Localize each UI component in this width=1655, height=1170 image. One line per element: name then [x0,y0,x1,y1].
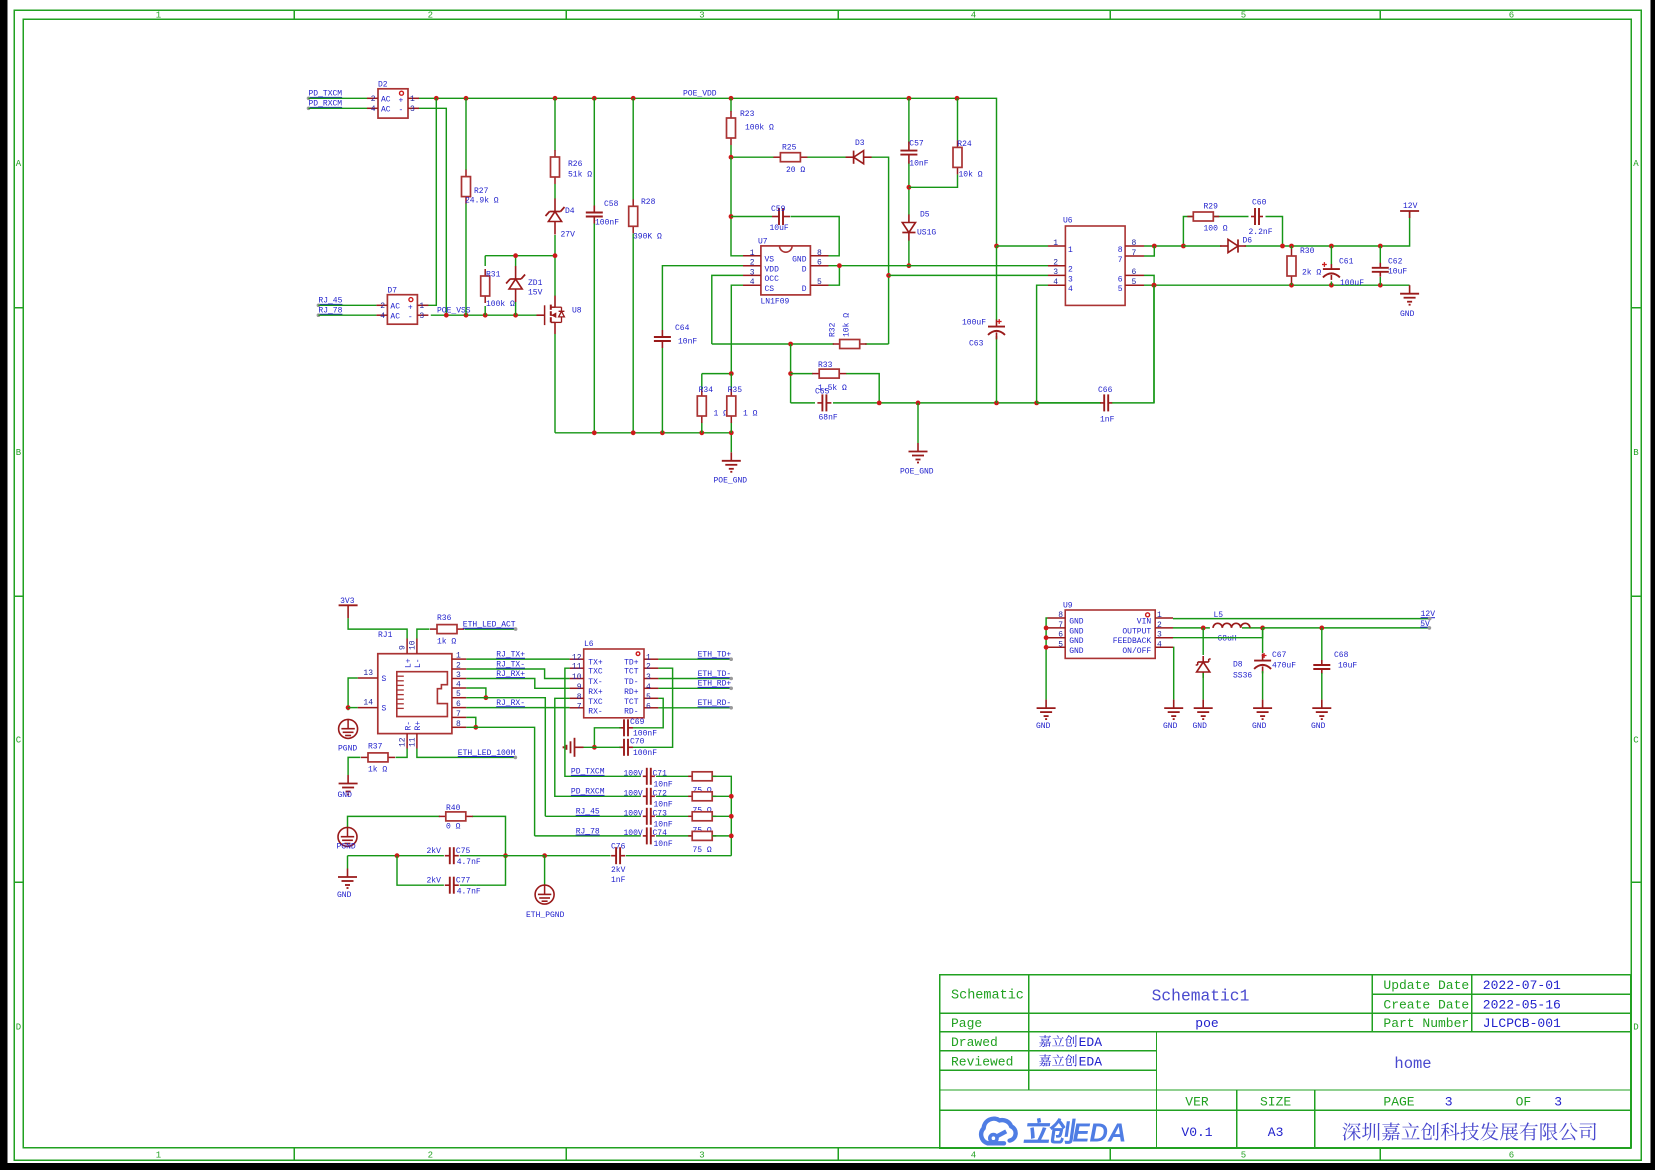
resistor R23 [727,110,775,145]
svg-text:C77: C77 [456,877,471,886]
svg-text:PAGE: PAGE [1383,1095,1414,1110]
wire R28 branch [632,98,634,433]
wire net POE_VDD rail [418,98,997,246]
svg-text:GND: GND [1163,722,1178,731]
svg-text:7: 7 [456,710,461,719]
svg-text:U9: U9 [1063,602,1073,611]
svg-text:2: 2 [428,11,433,21]
svg-text:C64: C64 [675,324,690,333]
svg-text:100k Ω: 100k Ω [745,124,774,133]
wire U6 pin1 [997,245,1049,247]
svg-text:U6: U6 [1063,217,1073,226]
svg-text:C: C [1633,736,1639,746]
capacitor C77 2kV [427,877,481,897]
wire C76 row [542,853,731,858]
svg-text:24.9k Ω: 24.9k Ω [465,197,499,206]
wire R27 branch [465,98,467,315]
wire R34 R35 sense [702,371,734,433]
svg-text:R25: R25 [782,144,797,153]
power flag 3V3 [339,597,408,639]
ground GND rotated at C70 [564,738,584,757]
svg-text:1: 1 [750,249,755,258]
wire net ETH_RD+ [658,680,733,690]
wire feedback loop [1173,628,1263,638]
resistor R37 [361,743,395,775]
svg-text:R-: R- [404,721,413,731]
svg-text:14: 14 [363,699,373,708]
svg-text:C62: C62 [1388,258,1403,267]
node RJ_RX+ label [496,670,525,679]
ground GND C68 [1311,700,1331,731]
svg-text:2: 2 [428,1151,433,1161]
svg-text:8: 8 [456,720,461,729]
wire U9 on/off to gnd [1172,647,1175,699]
svg-text:VDD: VDD [765,266,780,275]
svg-text:51k Ω: 51k Ω [568,171,592,180]
wire C77 row [397,856,476,886]
svg-text:6: 6 [817,259,822,268]
svg-text:AC: AC [390,312,400,321]
resistor R31 [481,269,515,309]
svg-text:6: 6 [456,700,461,709]
svg-text:1: 1 [1157,611,1162,620]
svg-text:R28: R28 [641,198,656,207]
svg-text:RX+: RX+ [588,688,603,697]
svg-text:4: 4 [646,683,651,692]
svg-text:8: 8 [1058,611,1063,620]
svg-text:Schematic: Schematic [951,989,1024,1004]
capacitor C59 [770,205,791,233]
svg-text:7: 7 [1118,256,1123,265]
ground ETH_PGND [526,885,565,920]
wire R33 row [788,344,879,403]
svg-text:6: 6 [1118,275,1123,284]
svg-text:10nF: 10nF [678,338,697,347]
svg-text:470uF: 470uF [1272,662,1296,671]
wire net POE_VSS rail [431,314,543,316]
svg-text:TX+: TX+ [588,659,603,668]
svg-text:OF: OF [1516,1095,1532,1110]
capacitor C70 [619,738,657,759]
svg-text:TXC: TXC [588,668,603,677]
capacitor C71 100V [624,768,673,790]
svg-text:C69: C69 [630,718,645,727]
svg-text:1: 1 [410,95,415,104]
svg-text:1: 1 [419,302,424,311]
node RJ_78 label 2 [576,827,600,836]
transformer L6 [570,640,659,718]
wire D2 pin3 to POE_VSS [418,108,446,315]
svg-text:R+: R+ [414,721,423,731]
svg-text:C70: C70 [630,738,645,747]
ground PGND 2 [337,827,358,851]
svg-text:EDA: EDA [1079,1054,1103,1069]
capacitor C72 100V [624,788,673,810]
svg-text:4: 4 [1068,285,1073,294]
svg-text:C75: C75 [456,847,471,856]
svg-text:+: + [408,303,413,312]
capacitor C74 100V [624,827,673,849]
svg-text:C57: C57 [909,140,924,149]
wire R40 loop [348,816,508,885]
svg-text:2kV: 2kV [611,866,626,875]
resistor R29 [1187,203,1227,234]
svg-text:3: 3 [750,268,755,277]
resistor R40 [439,804,473,832]
svg-text:GND: GND [337,891,352,900]
svg-text:US1G: US1G [917,229,936,238]
connector RJ1 [358,631,467,749]
svg-text:C76: C76 [611,843,626,852]
svg-text:3: 3 [1157,631,1162,640]
wire RJ1 pins13 14 to PGND [346,678,358,710]
svg-text:R37: R37 [368,743,383,752]
svg-text:A3: A3 [1268,1125,1284,1140]
resistor R34 [697,386,728,423]
svg-text:R32: R32 [829,322,838,337]
wire R25 takeoff [729,155,846,160]
junctions right rail [877,401,1039,406]
svg-text:VIN: VIN [1137,618,1152,627]
svg-text:S: S [382,705,387,714]
capacitor C66 [1098,386,1115,425]
capacitor C68 10uF [1313,628,1357,700]
svg-text:L-: L- [414,658,423,668]
svg-text:1 Ω: 1 Ω [714,410,729,419]
wire C66 bypass [1037,402,1101,404]
svg-text:10nF: 10nF [654,781,673,790]
svg-text:R40: R40 [446,804,461,813]
ground GND U9 left [1036,700,1056,731]
node ETH_LED_ACT label [463,621,518,631]
IC U6 [1048,217,1144,306]
svg-text:6: 6 [646,702,651,711]
wire C59 loop [729,157,840,256]
svg-text:12V: 12V [1403,202,1418,211]
svg-text:JLCPCB-001: JLCPCB-001 [1483,1016,1561,1031]
resistor R28 [629,198,662,242]
svg-text:S: S [382,675,387,684]
bridge rectifier D7 [376,286,428,324]
svg-text:8: 8 [817,249,822,258]
ground GND C67 [1252,700,1272,731]
zener diode ZD1 [506,266,543,302]
svg-text:V0.1: V0.1 [1181,1125,1212,1140]
svg-text:100V: 100V [624,769,643,778]
svg-text:TD+: TD+ [624,659,639,668]
svg-text:2: 2 [750,259,755,268]
svg-text:SS36: SS36 [1233,672,1252,681]
wire C75 row [348,853,545,868]
svg-text:GND: GND [1069,618,1084,627]
svg-text:8: 8 [1118,246,1123,255]
svg-text:5: 5 [646,693,651,702]
node ETH_LED_100M label [458,749,517,759]
capacitor C76 2kV [611,843,626,886]
wire net ETH_RD- [658,699,733,709]
resistor R 75ohm row3 [656,812,716,836]
svg-text:A: A [1633,159,1639,169]
ground GND on/off [1163,700,1183,731]
svg-text:7: 7 [577,702,582,711]
svg-text:100V: 100V [624,809,643,818]
wire net RJ_78 row [535,835,641,837]
svg-text:TCT: TCT [624,698,639,707]
svg-text:C61: C61 [1339,258,1354,267]
wire D3 to R32 riser [871,157,891,344]
svg-text:10uF: 10uF [1388,268,1407,277]
svg-text:VS: VS [765,256,775,265]
svg-text:AC: AC [390,302,400,311]
svg-text:4.7nF: 4.7nF [457,888,481,897]
svg-text:5: 5 [1118,285,1123,294]
svg-text:10: 10 [572,673,582,682]
svg-text:7: 7 [1132,249,1137,258]
svg-text:3: 3 [646,673,651,682]
wire net ETH_TD+ [658,651,733,661]
wire net RJ_45 row [545,815,641,817]
svg-text:PGND: PGND [338,745,357,754]
svg-text:C65: C65 [815,388,830,397]
node POE_VSS label [437,307,471,316]
ground GND output [1400,285,1419,319]
svg-text:10k Ω: 10k Ω [959,170,983,179]
svg-text:D2: D2 [378,81,388,90]
ground GND under C75 [337,869,357,901]
svg-text:100V: 100V [624,789,643,798]
wire R23 branch [730,98,732,157]
wire U7 pin2 to C64 [662,266,743,433]
diode D6 [1220,237,1252,253]
svg-text:PGND: PGND [337,843,356,852]
junctions on POE_VSS rail [444,313,518,318]
svg-text:R26: R26 [568,160,583,169]
svg-text:100k Ω: 100k Ω [486,300,515,309]
wire R30 branch [1291,246,1293,285]
svg-text:4: 4 [456,681,461,690]
IC U9 regulator [1048,602,1174,659]
svg-text:R36: R36 [437,614,452,623]
wire U9 gnd pins bus [1044,618,1049,700]
resistor R35 [727,386,758,423]
svg-text:1: 1 [1068,246,1073,255]
svg-text:OCC: OCC [765,275,780,284]
svg-text:100nF: 100nF [595,219,619,228]
svg-text:3: 3 [1068,275,1073,284]
svg-text:1: 1 [1053,239,1058,248]
wire net POE_GND right rail [791,285,1154,403]
wire R36 row [417,629,516,638]
svg-text:12: 12 [399,737,408,747]
svg-text:AC: AC [381,96,391,105]
svg-text:11: 11 [408,737,417,747]
ground POE_GND 2 [900,403,934,477]
svg-text:GND: GND [1069,637,1084,646]
svg-text:RD+: RD+ [624,688,639,697]
svg-text:EDA: EDA [1073,1120,1127,1148]
svg-text:27V: 27V [561,231,576,240]
svg-text:RX-: RX- [588,707,602,716]
logo LCEDA [981,1118,1126,1148]
svg-text:AC: AC [381,106,391,115]
wire 75ohm bus [712,776,733,855]
svg-text:5: 5 [1058,640,1063,649]
node RJ_RX- label [496,699,525,708]
wire net RJ_45 risers [466,688,545,816]
wire C61 branch [1330,246,1332,285]
node PD_RXCM label 2 [571,788,605,797]
svg-text:B: B [1633,448,1639,458]
wire D6 row to 12V [1183,212,1409,248]
svg-text:poe: poe [1195,1016,1218,1031]
svg-text:RJ1: RJ1 [378,631,393,640]
svg-text:9: 9 [577,683,582,692]
svg-text:0 Ω: 0 Ω [446,823,461,832]
svg-text:U7: U7 [758,238,768,247]
svg-text:Create Date: Create Date [1383,998,1469,1013]
svg-text:1k Ω: 1k Ω [437,638,456,647]
svg-text:5: 5 [817,278,822,287]
svg-text:D6: D6 [1243,237,1253,246]
resistor R36 [430,614,464,647]
mosfet U8 [537,296,582,334]
svg-text:A: A [16,159,22,169]
svg-text:100V: 100V [624,829,643,838]
svg-text:D3: D3 [855,139,865,148]
wire net 12V U9 [1173,618,1430,620]
svg-text:2: 2 [380,302,385,311]
svg-text:13: 13 [363,669,373,678]
svg-text:-: - [408,313,413,322]
resistor R30 [1287,247,1321,283]
svg-text:390K Ω: 390K Ω [633,233,662,242]
svg-text:GND: GND [1311,722,1326,731]
wire net U7 pin6 to U6 pin2 [829,265,1049,267]
ground PGND 1 [338,719,358,753]
svg-text:R35: R35 [728,386,743,395]
svg-text:1k Ω: 1k Ω [368,766,387,775]
svg-text:OUTPUT: OUTPUT [1122,627,1151,636]
resistor R32 [829,313,867,349]
svg-text:6: 6 [1058,631,1063,640]
svg-text:ON/OFF: ON/OFF [1122,647,1151,656]
svg-text:2: 2 [1053,259,1058,268]
wire ETH_PGND drop [544,856,546,886]
svg-text:C63: C63 [969,340,984,349]
svg-text:home: home [1394,1055,1431,1073]
svg-text:4.7nF: 4.7nF [457,858,481,867]
svg-text:L6: L6 [584,640,594,649]
svg-text:GND: GND [1069,627,1084,636]
ground POE_GND 1 [714,452,748,485]
capacitor C64 [654,324,698,348]
svg-text:2: 2 [1157,621,1162,630]
svg-text:10uF: 10uF [1338,662,1357,671]
svg-text:D: D [802,266,807,275]
capacitor C60 [1249,199,1273,238]
svg-text:C60: C60 [1252,199,1267,208]
svg-text:Page: Page [951,1016,982,1031]
node 12V label [1421,610,1436,620]
svg-text:1: 1 [156,11,161,21]
svg-text:D: D [16,1023,21,1033]
wire C57 branch [907,98,912,215]
wire zener clamp row [485,253,557,266]
svg-text:R27: R27 [474,187,489,196]
node PD_RXCM label [307,100,367,110]
svg-text:POE_VDD: POE_VDD [683,90,717,99]
svg-text:2022-05-16: 2022-05-16 [1483,998,1561,1013]
diode D3 [846,139,872,164]
svg-text:100 Ω: 100 Ω [1204,225,1228,234]
wire R31 ZD1 bottoms [485,302,515,315]
svg-text:VER: VER [1185,1095,1209,1110]
capacitor C57 [900,140,928,169]
wire R29 C60 snubber loop [1181,217,1283,249]
svg-text:GND: GND [1036,722,1051,731]
wire D2 pin1 to D7 pin1 [419,98,436,305]
wire net PD_RXCM riser [555,698,641,796]
svg-text:3: 3 [410,105,415,114]
svg-text:6: 6 [1509,11,1514,21]
svg-text:GND: GND [1252,722,1267,731]
svg-text:C68: C68 [1334,651,1349,660]
svg-text:12: 12 [572,654,582,663]
svg-text:L+: L+ [404,658,413,668]
zener diode D4 [546,199,576,240]
svg-text:3: 3 [456,671,461,680]
svg-text:100uF: 100uF [962,319,986,328]
svg-text:1nF: 1nF [611,876,626,885]
svg-text:3: 3 [699,1151,704,1161]
title block company name CJK [1343,1122,1597,1140]
svg-text:1: 1 [646,654,651,663]
svg-text:+: + [399,97,404,106]
svg-text:100nF: 100nF [633,749,657,758]
schottky diode D8 SS36 [1196,628,1253,700]
svg-text:6: 6 [1509,1151,1514,1161]
svg-text:D: D [1633,1023,1638,1033]
wire net OCC to U6 pin3 [889,274,1048,276]
svg-text:10k Ω: 10k Ω [843,313,852,337]
svg-text:3: 3 [1053,268,1058,277]
svg-text:Part Number: Part Number [1383,1016,1469,1031]
svg-text:GND: GND [1193,722,1208,731]
wire R32 row [712,342,889,347]
svg-text:15V: 15V [528,289,543,298]
wire net 5V output [1173,626,1429,631]
svg-text:D7: D7 [387,286,397,295]
wire net RJ_78 risers [466,717,534,836]
wire net RJ_TX+ [466,658,569,660]
resistor R 75ohm row4 [656,831,716,855]
node PD_TXCM label 2 [571,768,605,777]
svg-text:1: 1 [156,1151,161,1161]
svg-text:100uF: 100uF [1340,279,1364,288]
svg-text:GND: GND [338,791,353,800]
svg-text:10uF: 10uF [770,224,789,233]
svg-text:GND: GND [1069,647,1084,656]
svg-text:LN1F09: LN1F09 [761,298,790,307]
svg-text:2kV: 2kV [427,877,442,886]
title block texts [951,978,1562,1140]
resistor R27 [462,170,499,206]
svg-text:GND: GND [1400,310,1415,319]
svg-text:10nF: 10nF [654,801,673,810]
capacitor C67 470uF [1254,628,1296,700]
svg-text:R34: R34 [699,386,714,395]
svg-text:L5: L5 [1214,611,1224,620]
